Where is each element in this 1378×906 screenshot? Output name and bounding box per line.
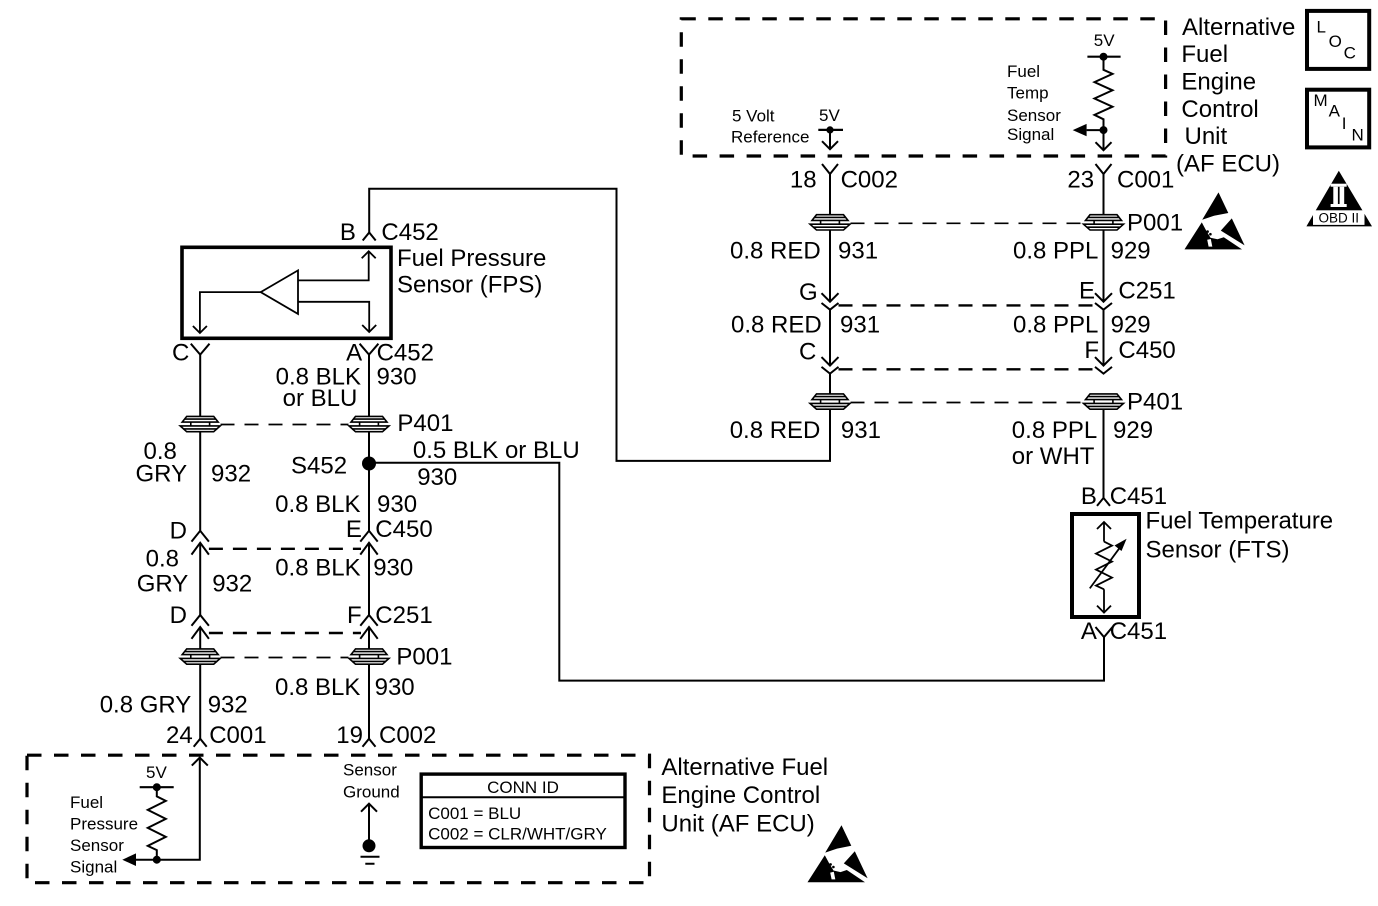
ESD symbol (top right) [1185,192,1245,249]
svg-text:Sensor: Sensor [1007,106,1061,125]
svg-text:E: E [346,516,362,543]
svg-text:C001 = BLU: C001 = BLU [428,804,521,823]
svg-text:930: 930 [417,464,457,491]
FPS pullup bar [140,786,174,788]
svg-text:0.8 RED: 0.8 RED [730,417,821,444]
fuel temperature sensor FTS box [1072,514,1139,617]
svg-text:C001: C001 [1117,167,1174,194]
in-line connector P401 (right half, PPL wire) [1084,394,1124,409]
svg-text:I: I [1342,114,1347,133]
svg-text:0.8 GRY: 0.8 GRY [100,692,192,719]
fuel pressure sensor FPS box [182,247,391,338]
CONN ID table [421,774,625,847]
svg-text:5V: 5V [819,106,840,125]
svg-text:O: O [1329,32,1342,51]
svg-text:G: G [799,279,818,306]
svg-text:L: L [1317,18,1326,37]
wire PPL segment 5 (to FTS) [1103,410,1105,498]
svg-text:Reference: Reference [731,127,809,146]
connector F C450 arrow+fork [1095,357,1112,366]
svg-text:GRY: GRY [137,571,189,598]
FPS output wire to C [200,292,261,333]
svg-text:24: 24 [166,722,193,749]
svg-text:931: 931 [840,312,880,339]
svg-text:C002: C002 [841,167,898,194]
svg-text:D: D [170,602,187,629]
dashed link P401 left [221,424,349,426]
svg-text:0.8: 0.8 [146,546,179,573]
svg-text:Engine: Engine [1181,69,1256,96]
FPS input wire to A [298,302,369,332]
svg-text:C451: C451 [1110,618,1167,645]
wire fuel temp signal down arrow [1103,130,1105,150]
svg-text:C002 = CLR/WHT/GRY: C002 = CLR/WHT/GRY [428,824,607,843]
svg-text:0.5 BLK or BLU: 0.5 BLK or BLU [413,437,580,464]
svg-text:18: 18 [790,167,817,194]
dashed link P001 left [221,657,349,659]
in-line connector P401 (left, GRY wire) [180,416,220,431]
svg-text:Fuel Temperature: Fuel Temperature [1146,508,1334,535]
wire RED 931 segment 2 [829,230,831,301]
wire GRY segment 3 [199,543,201,615]
in-line connector P001 (left half, RED wire) [810,215,850,230]
svg-text:5 Volt: 5 Volt [732,107,775,126]
svg-text:C001: C001 [209,722,266,749]
junction dot fuel temp signal [1100,126,1108,134]
svg-text:Unit: Unit [1185,123,1228,150]
svg-text:Alternative: Alternative [1182,14,1295,41]
connector B C452 fork [363,233,376,241]
svg-text:P401: P401 [397,410,453,437]
resistor (fuel temp pullup) [1095,57,1113,130]
wire BLK segment 4 [368,627,370,649]
svg-text:0.8 RED: 0.8 RED [731,312,822,339]
connector D (C450) fork+arrow [192,531,209,542]
svg-text:C002: C002 [379,722,436,749]
svg-text:C450: C450 [1118,337,1175,364]
svg-text:Signal: Signal [70,858,117,877]
svg-text:Fuel: Fuel [70,793,103,812]
wire PPL 929 (x=1103.5) [1103,174,1105,214]
svg-text:or WHT: or WHT [1012,443,1095,470]
svg-text:Control: Control [1181,96,1258,123]
wire FTS ground return to S452 [369,463,1104,681]
dashed link C-F [839,368,1096,370]
svg-text:Engine Control: Engine Control [661,782,820,809]
dashed link P401 [851,402,1084,404]
MAIN icon box [1307,90,1369,148]
dashed link D-E [209,548,361,550]
svg-text:929: 929 [1113,417,1153,444]
svg-text:P001: P001 [1127,210,1183,237]
wire 5V ref down arrow [829,130,831,149]
ECU dashed box (top right, AF ECU) [681,19,1165,156]
svg-text:CONN ID: CONN ID [487,778,559,797]
wire BLK segment 1 [368,355,370,416]
resistor (FPS pullup) [148,787,166,860]
svg-text:P401: P401 [1127,388,1183,415]
svg-text:19: 19 [336,722,363,749]
wire RED segment 4 [829,374,831,394]
junction dot 5V ref [826,126,833,133]
svg-text:932: 932 [212,571,252,598]
svg-text:0.8 BLK: 0.8 BLK [275,674,360,701]
svg-text:C451: C451 [1110,483,1167,510]
pin 18 C002 fork [822,164,838,174]
wire RED 931 (x=830) [829,174,831,214]
wire BLK segment 5 [368,665,370,739]
wire GRY segment 2 [199,432,201,531]
wire GRY segment 1 [199,355,201,416]
connector E C251 arrow+fork [1095,293,1112,302]
svg-text:C251: C251 [375,602,432,629]
svg-text:Ground: Ground [343,782,400,801]
svg-text:5V: 5V [1094,31,1115,50]
svg-text:23: 23 [1067,167,1094,194]
OBD II icon [1306,171,1372,227]
svg-text:B: B [1081,483,1097,510]
LOC icon box [1307,11,1369,69]
dashed link D-F [209,632,361,634]
FPS signal arrowhead [122,853,136,866]
svg-text:0.8 PPL: 0.8 PPL [1013,312,1098,339]
connector C (C450) arrow+fork [822,357,839,366]
junction dot 5V pullup [1100,53,1108,61]
wire PPL 929 segment 2 [1103,230,1105,301]
wire GRY segment 5 [199,665,201,739]
svg-text:(AF ECU): (AF ECU) [1176,151,1280,178]
svg-text:B: B [340,219,356,246]
junction dot FPS pullup top [153,783,161,791]
svg-text:GRY: GRY [136,461,188,488]
dashed link G-E [839,304,1096,306]
svg-text:Alternative Fuel: Alternative Fuel [661,754,828,781]
connector G (C251) arrow+fork [822,293,839,302]
connector B C451 fork [1097,498,1110,506]
svg-text:Sensor: Sensor [343,761,397,780]
connector F C251 fork+arrow [360,615,377,626]
FTS internal wire with arrows [1103,522,1105,613]
ECU dashed box (bottom left, AF ECU) [27,755,650,883]
sensor ground arrow [368,804,370,846]
svg-text:930: 930 [373,554,413,581]
svg-text:C: C [1344,43,1356,62]
5V pullup bar [1087,56,1120,58]
pin 23 C001 fork [1096,164,1112,174]
svg-text:C251: C251 [1118,278,1175,305]
splice S452 [362,457,376,471]
connector D (C251) fork+arrow [192,615,209,626]
wire GRY segment 4 [199,627,201,649]
svg-text:930: 930 [377,364,417,391]
svg-text:OBD II: OBD II [1319,210,1360,225]
svg-text:Unit (AF ECU): Unit (AF ECU) [661,811,814,838]
in-line connector P401 (left half, RED wire) [810,394,850,409]
FPS op-amp triangle [261,270,298,314]
svg-text:930: 930 [377,491,417,518]
svg-text:0.8 PPL: 0.8 PPL [1012,417,1097,444]
connector C fork [191,344,210,355]
svg-text:C: C [799,339,816,366]
svg-text:0.8 PPL: 0.8 PPL [1013,237,1098,264]
dashed link P001 [851,222,1084,224]
svg-text:C450: C450 [375,516,432,543]
wire RED to FPS B terminal (elbow) [369,189,830,461]
svg-text:E: E [1079,278,1095,305]
svg-text:932: 932 [211,461,251,488]
svg-text:0.8 RED: 0.8 RED [730,237,821,264]
svg-text:Temp: Temp [1007,83,1049,102]
in-line connector P001 (left, GRY wire) [180,649,220,664]
svg-text:931: 931 [841,417,881,444]
svg-text:F: F [347,602,362,629]
in-line connector P001 (right, BLK wire) [349,649,389,664]
connector E C450 fork+arrow [360,531,377,542]
svg-text:Fuel: Fuel [1007,62,1040,81]
svg-text:Sensor (FTS): Sensor (FTS) [1146,537,1290,564]
svg-text:C452: C452 [381,219,438,246]
FTS thermistor zigzag [1096,542,1112,590]
svg-text:930: 930 [375,674,415,701]
svg-text:Fuel Pressure: Fuel Pressure [397,245,546,272]
junction dot FPS pullup bottom [153,856,161,864]
svg-text:929: 929 [1111,312,1151,339]
svg-text:931: 931 [838,237,878,264]
svg-text:or BLU: or BLU [283,385,358,412]
connector A C451 fork [1096,627,1113,637]
svg-text:5V: 5V [146,763,167,782]
svg-text:Sensor: Sensor [70,836,124,855]
svg-text:Fuel: Fuel [1181,41,1228,68]
pin 19 C002 fork [363,739,376,747]
wire BLK segment 3 [368,543,370,615]
svg-text:932: 932 [208,692,248,719]
in-line connector P401 (right, BLK wire) [349,416,389,431]
svg-text:C: C [172,340,189,367]
svg-text:F: F [1084,337,1099,364]
svg-text:M: M [1314,91,1328,110]
svg-text:A: A [1329,102,1341,121]
FPS input wire from B [298,251,369,280]
wire RED segment 3 [829,310,831,366]
FPS signal output wire with up arrow [136,758,200,860]
wire BLK segment 2 with S452 [368,432,370,531]
svg-text:A: A [1081,618,1097,645]
5V reference pin bar [818,129,843,131]
svg-text:S452: S452 [291,453,347,480]
svg-text:Pressure: Pressure [70,815,138,834]
svg-text:929: 929 [1111,237,1151,264]
svg-text:Sensor (FPS): Sensor (FPS) [397,272,542,299]
svg-text:0.8 BLK: 0.8 BLK [275,554,360,581]
in-line connector P001 (right half, PPL wire) [1084,215,1124,230]
pin 24 C001 fork [194,739,207,747]
svg-text:0.8 BLK: 0.8 BLK [275,491,360,518]
svg-text:Signal: Signal [1007,125,1054,144]
ground symbol [363,839,376,852]
wire PPL segment 3 [1103,310,1105,366]
ESD symbol (bottom) [808,825,868,882]
FTS variable arrow [1090,545,1122,589]
svg-text:D: D [170,517,187,544]
connector A C452 fork [360,344,379,355]
svg-text:N: N [1352,125,1364,144]
svg-text:P001: P001 [396,644,452,671]
fuel temp signal tap arrow [1087,129,1104,131]
